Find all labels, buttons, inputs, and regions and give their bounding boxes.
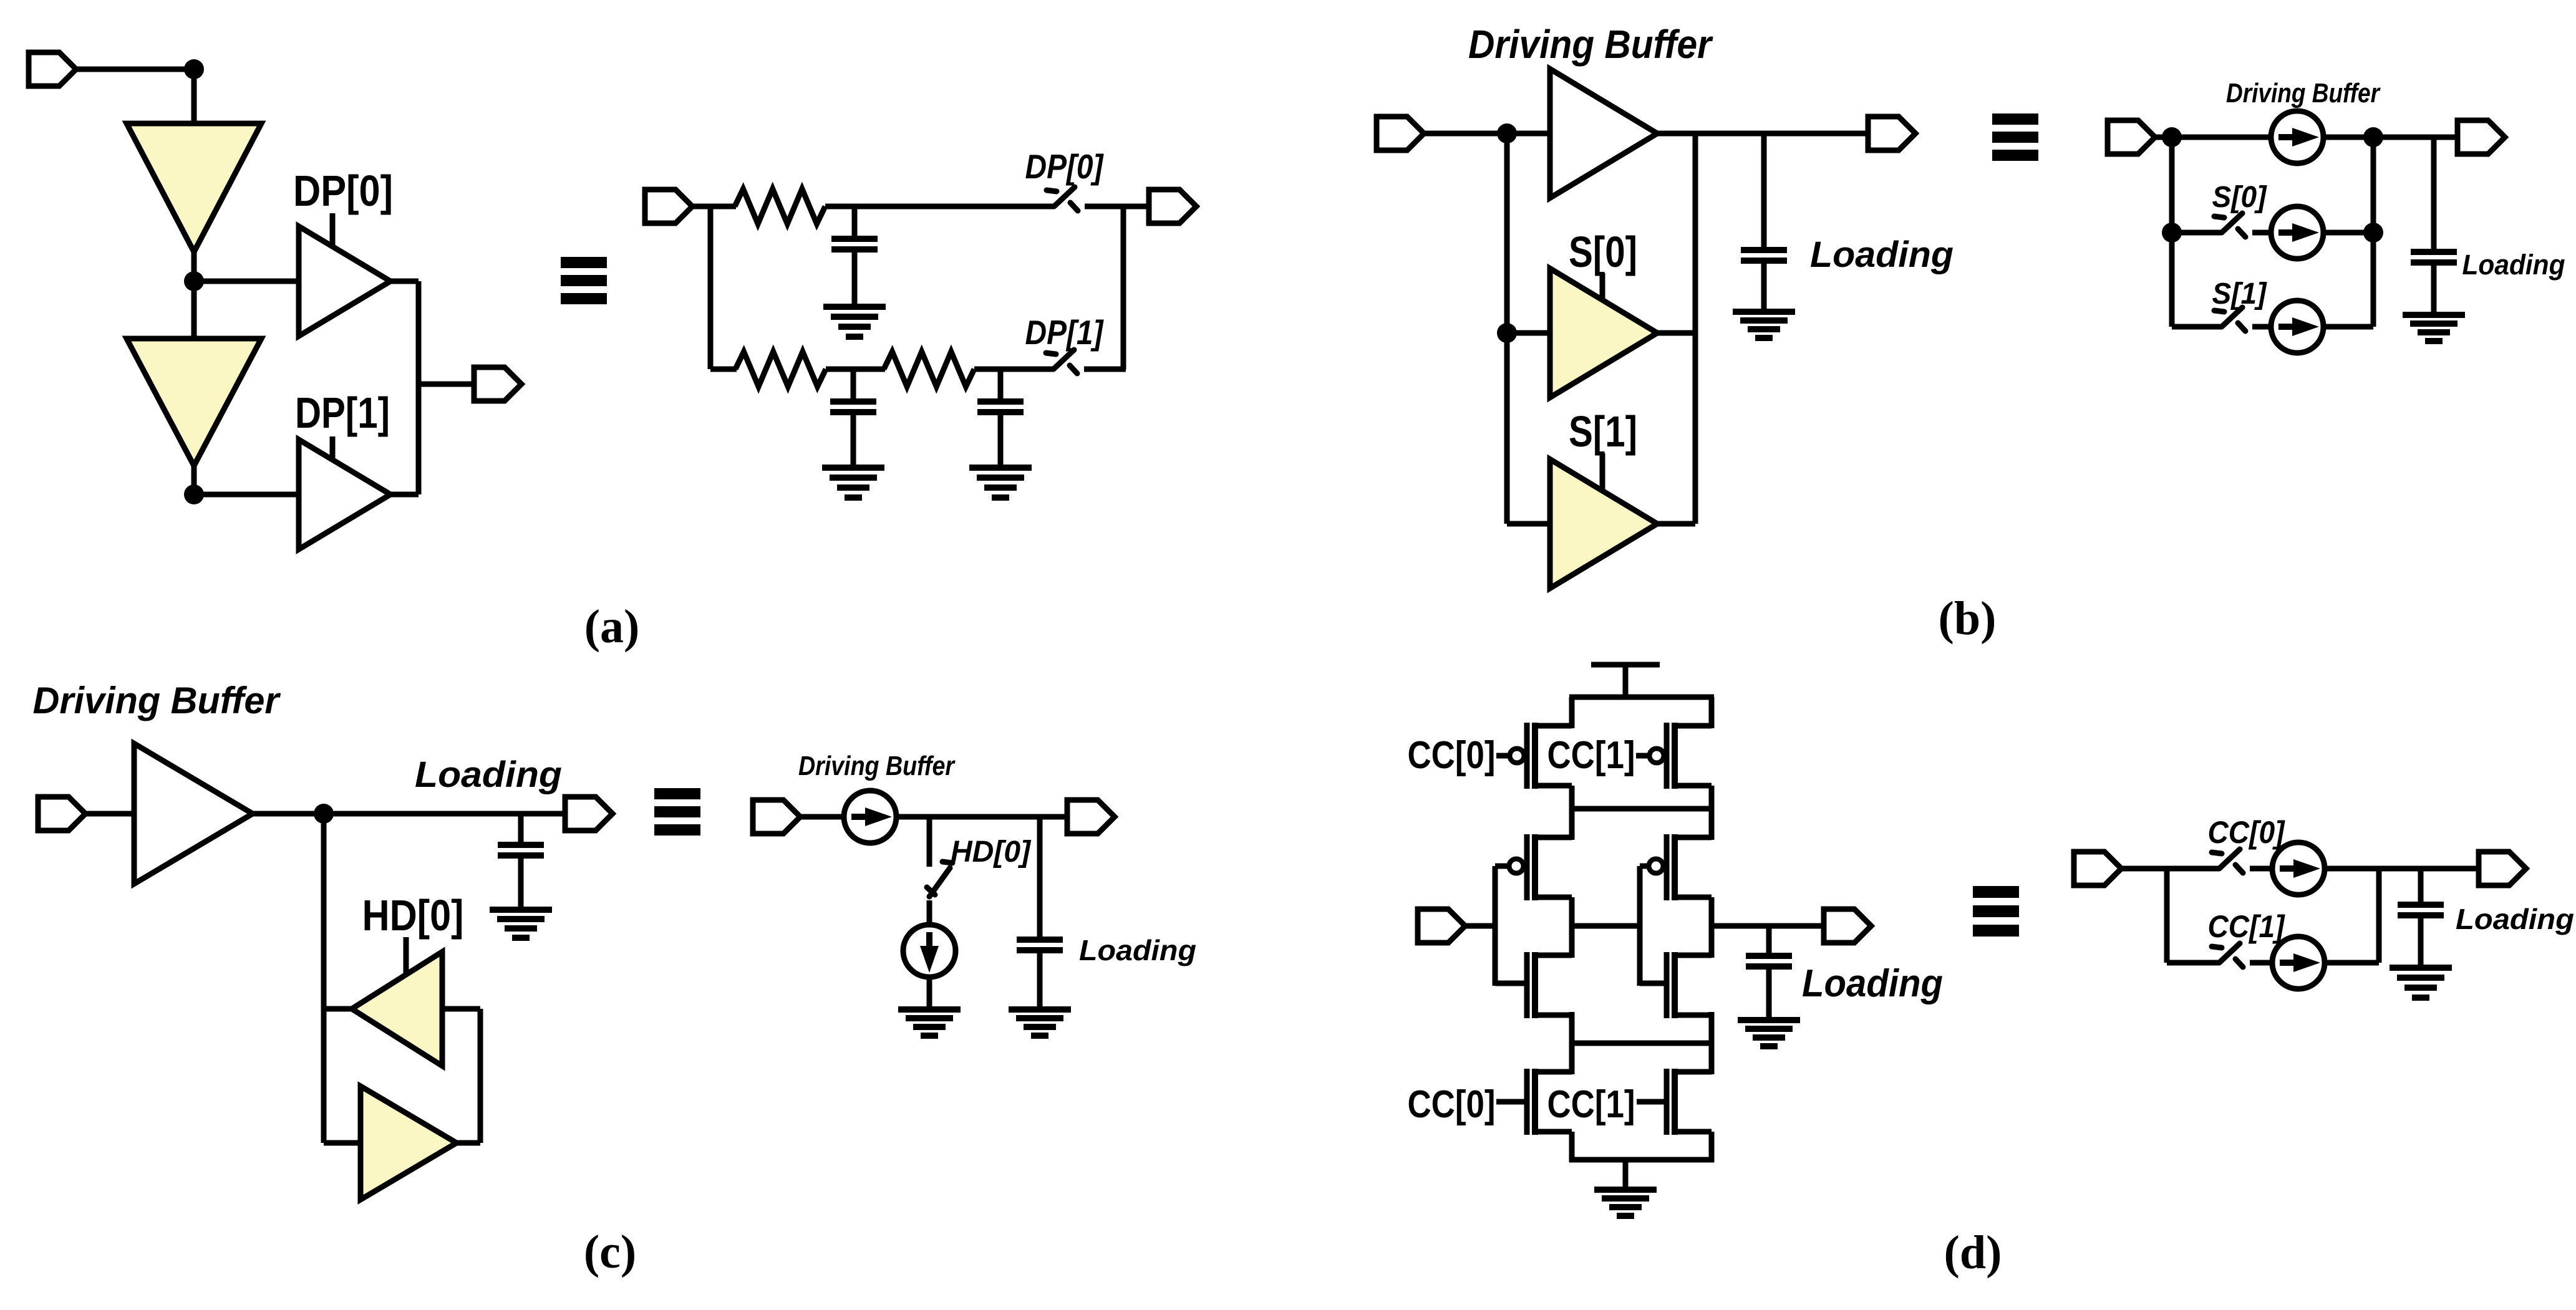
wire bus to switch S0 (b-right) (2172, 230, 2222, 236)
current source driving buffer (c-right) (844, 791, 896, 843)
node2 junction (a) (184, 271, 204, 291)
wire R1 to switch DP0 (node A) (825, 204, 1054, 210)
wire keeper upper out to bus (324, 1006, 352, 1012)
wire IN to current source (b-right) (2155, 135, 2272, 140)
label S[0] (b-left) (1569, 228, 1637, 276)
M3 drain to out1 (d) (1569, 897, 1575, 958)
svg-text:CC[1]: CC[1] (2208, 909, 2286, 944)
node dot S0 branch (b-right) (2162, 223, 2182, 243)
NMOS M8 CC[1] (d) (1637, 1069, 1712, 1135)
loading cap to ground (b-left) (1761, 261, 1767, 312)
left bus vertical (b-right) (2169, 137, 2175, 327)
svg-text:CC[0]: CC[0] (2208, 815, 2286, 850)
output port OUT (a-left) (474, 367, 521, 401)
svg-text:Loading: Loading (2462, 249, 2565, 281)
resistor R1 (a-right top) (735, 189, 825, 224)
equivalence symbol (c) (654, 788, 700, 836)
label Loading (c-right) (1079, 934, 1196, 966)
wire source to OUT (c-right) (898, 814, 1068, 820)
wire node3 to DP1 buffer input (194, 492, 299, 498)
output bus vertical (a-left) (416, 281, 422, 494)
label DP[0] (a-left) (293, 166, 393, 215)
ground of C3 (969, 468, 1032, 498)
node junction top (a) (184, 59, 204, 79)
node P rail (d) (1569, 806, 1714, 812)
wire switch S1 to source (2252, 324, 2272, 330)
svg-text:Driving Buffer: Driving Buffer (1468, 22, 1713, 67)
svg-text:Driving Buffer: Driving Buffer (33, 680, 282, 721)
label Driving Buffer (b-left) (1468, 22, 1713, 67)
input port IN (b-right) (2108, 120, 2155, 154)
svg-text:CC[1]: CC[1] (1547, 1083, 1635, 1126)
ground of loading cap (b-left) (1733, 312, 1795, 338)
svg-text:DP[1]: DP[1] (1025, 313, 1104, 352)
switch HD[0] (c-right) (927, 862, 952, 897)
loading cap to ground (b-right) (2431, 265, 2437, 315)
keeper right vertical (478, 1009, 483, 1143)
wire DP0 out to bus (a) (390, 279, 419, 284)
inverter X1 (delay buffer, a-left) (127, 123, 261, 252)
PMOS M2 CC[1] (d) (1636, 723, 1712, 789)
switch CC[0] (d-right) (2212, 849, 2243, 873)
label DP[0] switch (a-right) (1025, 147, 1104, 186)
label DP[1] switch (a-right) (1025, 313, 1104, 352)
wire IN to switch CC0 (d-right) (2121, 866, 2219, 872)
wire switch S0 to source (2252, 230, 2272, 236)
label HD[0] (c-left) (362, 891, 464, 940)
loading capacitor (b-right) (2411, 137, 2457, 265)
tri-state buffer DP[0] (a-left) (299, 226, 390, 336)
wire switch CC1 to source (2250, 960, 2271, 966)
svg-text:CC[0]: CC[0] (1408, 734, 1496, 777)
ground of C2 (822, 468, 884, 498)
label CC[0] bottom (d) (1408, 1083, 1496, 1126)
gate line inverter-2 (d) (1640, 859, 1667, 986)
equivalence symbol (d) (1973, 886, 2019, 937)
wire R3 to switch DP1 (node C) (974, 367, 1053, 372)
M4 drain to out2 (d) (1709, 897, 1715, 958)
loading cap to ground (c-right) (1037, 950, 1043, 1009)
ground of C1 (823, 307, 886, 337)
wire C3 to ground (998, 415, 1004, 468)
current source CC[0] (d-right) (2272, 842, 2325, 895)
tick DP[1] to buffer (330, 436, 336, 461)
wire IN to driving buffer (c) (85, 811, 134, 817)
current source driving buffer (b-right) (2271, 111, 2323, 163)
out1 to inverter-2 gate (d) (1572, 923, 1640, 929)
switch DP[0] (a-right) (1047, 187, 1078, 211)
ground of loading cap (c-left) (490, 910, 552, 938)
VDD stem (d) (1623, 665, 1629, 700)
output port OUT (c-right) (1067, 800, 1115, 834)
tri-state buffer DP[1] (a-left) (299, 440, 390, 549)
driving buffer (b-left) (1550, 69, 1657, 198)
current source S[1] (b-right) (2271, 301, 2323, 353)
input port IN (d-left) (1418, 909, 1465, 943)
loading capacitor (c-right) (1017, 817, 1063, 953)
wire keeper upper in right (442, 1006, 480, 1012)
right bus vertical (b-right) (2371, 137, 2376, 327)
switch S[0] (b-right) (2214, 213, 2245, 237)
keeper buffer lower (c-left) (361, 1086, 457, 1200)
right bus vertical (b-left) (1693, 133, 1698, 524)
input node dot (b-left) (1497, 123, 1517, 143)
node N rail (d) (1569, 1041, 1714, 1046)
wire switch to sink source (c-right) (927, 900, 932, 923)
current source CC[1] (d-right) (2272, 937, 2325, 989)
wire switch DP1 to right bus (1084, 367, 1126, 372)
M1 drain down to node P (d) (1569, 786, 1575, 811)
output port OUT (d-left) (1824, 909, 1871, 943)
switch CC[1] (d-right) (2212, 943, 2243, 967)
label Driving Buffer (c-right) (798, 751, 956, 781)
resistor R2 (a-right bottom) (735, 352, 826, 387)
junction vertical to lower branch (a-right) (708, 206, 714, 369)
scaling buffer S[1] (b-left) (1550, 460, 1657, 589)
node dot S0 out (b-right) (2363, 223, 2383, 243)
wire S0 out to right bus (1657, 330, 1695, 336)
left bus vertical (b-left) (1504, 133, 1510, 524)
node3 junction (a) (184, 484, 204, 504)
output node dot (c-left) (314, 804, 334, 824)
node P to M4 source (d) (1709, 809, 1715, 840)
switch S[1] (b-right) (2214, 307, 2245, 331)
driving buffer (c-left) (134, 744, 253, 884)
label Loading (d-right) (2456, 903, 2574, 935)
wire left bus corner to S1 input (1507, 521, 1550, 527)
svg-text:(c): (c) (584, 1226, 636, 1278)
wire source CC0 to OUT (d-right) (2326, 866, 2480, 872)
tick S[0] to buffer (1600, 273, 1605, 301)
node N to M7 drain (d) (1569, 1043, 1575, 1074)
svg-text:Loading: Loading (415, 754, 562, 795)
wire buffer out to OUT (b-left) (1657, 131, 1871, 137)
wire corner to switch CC1 (d-right) (2167, 960, 2219, 966)
loading capacitor (d-right) (2398, 869, 2444, 918)
wire switch DP0 to OUT (a-right) (1085, 204, 1149, 210)
svg-text:CC[0]: CC[0] (1408, 1083, 1496, 1126)
wire C2 to ground (851, 415, 856, 468)
panel label (d) (1944, 1226, 2002, 1279)
svg-text:(d): (d) (1944, 1226, 2002, 1279)
ground of loading cap (c-right) (1009, 1009, 1071, 1036)
gate line inverter-1 (d) (1495, 859, 1527, 986)
loading cap to ground (d-right) (2418, 915, 2424, 968)
panel label (a) (584, 600, 640, 653)
wire node down to switch HD0 (927, 817, 932, 867)
label Loading (d-left) (1802, 962, 1943, 1005)
wire buffer out to OUT (c-left) (253, 811, 566, 817)
ground of loading cap (d-left) (1738, 1020, 1800, 1046)
wire sink to ground (c-right) (927, 978, 932, 1009)
inverter X2 (delay buffer, a-left) (127, 339, 261, 466)
label CC[1] bottom (d) (1547, 1083, 1635, 1126)
input port IN (b-left) (1377, 117, 1424, 150)
output port OUT (a-right) (1149, 190, 1196, 223)
input port IN (d-right) (2074, 852, 2121, 885)
svg-text:HD[0]: HD[0] (951, 836, 1032, 869)
output port OUT (d-right) (2479, 852, 2526, 885)
capacitor C2 (a-right) (830, 369, 876, 415)
switch DP[1] (a-right) (1046, 350, 1077, 373)
input port IN (c-right) (753, 800, 800, 834)
label Loading (b-right) (2462, 249, 2565, 281)
wire bus corner to keeper lower in (324, 1140, 361, 1146)
tick S[1] to buffer (1600, 453, 1605, 491)
keeper buffer upper HD[0] (c-left) (352, 952, 442, 1066)
M7 source down to gnd rail (d) (1569, 1132, 1575, 1162)
label HD[0] switch (c-right) (951, 836, 1032, 869)
svg-text:Driving Buffer: Driving Buffer (798, 751, 956, 781)
wire C1 to ground (852, 252, 858, 307)
node dot S0 input (b-left) (1497, 323, 1517, 343)
input node dot (b-right) (2162, 127, 2182, 147)
wire node1 down to inverter X1 (a) (191, 69, 197, 125)
wire source CC1 to right vertical (2326, 960, 2379, 966)
svg-text:Loading: Loading (2456, 903, 2574, 935)
current source S[0] (b-right) (2271, 206, 2323, 259)
equivalence symbol (a) (561, 257, 607, 304)
loading capacitor (d-left) (1746, 926, 1792, 969)
left branch vertical (d-right) (2164, 869, 2170, 963)
wire to S0 buffer (b-left) (1507, 330, 1550, 336)
label CC[1] (d-right) (2208, 909, 2286, 944)
svg-text:(a): (a) (584, 600, 640, 653)
wire source to OUT (b-right) (2322, 135, 2459, 140)
rail to M1 source (d) (1569, 697, 1575, 728)
M6 source down to node N (d) (1709, 1012, 1715, 1046)
wire lower-left corner to R2 (710, 367, 737, 372)
ground of loading cap (d-right) (2390, 968, 2452, 998)
wire IN to node1 (a) (76, 67, 197, 72)
node N to M8 drain (d) (1709, 1043, 1715, 1074)
svg-text:DP[1]: DP[1] (295, 388, 390, 437)
label S[0] (b-right) (2212, 181, 2268, 214)
label Driving Buffer (b-right) (2226, 78, 2381, 108)
right branch vertical (d-right) (2376, 869, 2382, 963)
panel label (b) (1939, 592, 1997, 645)
M5 source down to node N (d) (1569, 1012, 1575, 1046)
output port OUT (c-left) (565, 797, 613, 831)
right bus vertical (a-right) (1121, 206, 1126, 369)
svg-text:Loading: Loading (1802, 962, 1943, 1005)
svg-text:DP[0]: DP[0] (293, 166, 393, 215)
PMOS M3 inverter-1 (d) (1527, 834, 1572, 900)
input port IN (a-right) (645, 190, 692, 223)
wire R2 to R3 (node B) (826, 367, 885, 372)
output node dot (b-right) (2363, 127, 2383, 147)
feedback bus vertical (c-left) (321, 814, 327, 1143)
NMOS M7 CC[0] (d) (1496, 1069, 1572, 1135)
svg-text:S[0]: S[0] (2212, 181, 2268, 214)
equivalence symbol (b) (1992, 113, 2038, 161)
ground of loading cap (b-right) (2403, 315, 2465, 341)
svg-text:Loading: Loading (1079, 934, 1196, 966)
label S[1] (b-left) (1569, 407, 1637, 456)
svg-text:S[0]: S[0] (1569, 228, 1637, 276)
loading cap to ground (c-left) (518, 855, 524, 910)
label S[1] (b-right) (2212, 277, 2268, 311)
wire IN to inverter-1 gate (d) (1465, 923, 1495, 929)
svg-text:CC[1]: CC[1] (1547, 734, 1635, 777)
wire DP1 out to bus (a) (390, 492, 419, 498)
PMOS M4 inverter-2 (d) (1667, 834, 1712, 900)
wire IN to current source (c-right) (800, 814, 843, 820)
PMOS M1 CC[0] (d) (1496, 723, 1572, 789)
wire IN to R1 (a-right) (692, 204, 736, 210)
label Loading (c-left) (415, 754, 562, 795)
ground stem (d) (1623, 1160, 1629, 1190)
resistor R3 (a-right bottom) (884, 352, 974, 387)
ground rail (d) (1569, 1157, 1714, 1163)
wire X1 out to node2 (a) (191, 252, 197, 340)
svg-text:DP[0]: DP[0] (1025, 147, 1104, 186)
svg-text:HD[0]: HD[0] (362, 891, 464, 940)
wire node2 to DP0 buffer input (194, 279, 299, 284)
label CC[1] top (d) (1547, 734, 1635, 777)
wire switch CC0 to source (2250, 866, 2271, 872)
loading cap to ground (d-left) (1766, 966, 1772, 1020)
output port OUT (b-right) (2457, 120, 2505, 154)
label Driving Buffer (c-left) (33, 680, 282, 721)
output port OUT (b-left) (1868, 117, 1915, 150)
wire source S1 to right bus corner (2322, 324, 2373, 330)
wire X2 out to node3 (a) (191, 466, 197, 494)
svg-text:S[1]: S[1] (2212, 277, 2268, 311)
out2 wire to OUT port (d) (1712, 923, 1825, 929)
wire bus corner to switch S1 (b-right) (2172, 324, 2222, 330)
ground of sink (c-right) (898, 1009, 961, 1036)
input port IN (a-left) (29, 52, 76, 86)
wire bus to OUT port (a-left) (419, 382, 475, 387)
tick DP[0] to buffer (330, 213, 336, 248)
loading capacitor (c-left) (498, 814, 544, 858)
ground symbol (d-left) (1594, 1190, 1657, 1216)
svg-text:Driving Buffer: Driving Buffer (2226, 78, 2381, 108)
rail to M2 source (d) (1709, 697, 1715, 728)
label CC[0] top (d) (1408, 734, 1496, 777)
NMOS M6 inverter-2 (d) (1667, 952, 1712, 1018)
svg-text:Loading: Loading (1810, 234, 1954, 275)
M2 drain down to node P (d) (1709, 786, 1715, 811)
capacitor C3 (a-right) (977, 369, 1024, 415)
current sink HD[0] (c-right) (903, 925, 956, 977)
tick HD[0] to keeper buffer (404, 937, 409, 974)
svg-text:S[1]: S[1] (1569, 407, 1637, 456)
VDD rail bar (d) (1591, 662, 1660, 668)
M8 source down to gnd rail (d) (1709, 1132, 1715, 1162)
label Loading (b-left) (1810, 234, 1954, 275)
wire IN to driving buffer (b) (1424, 131, 1550, 137)
PMOS source rail (d) (1569, 695, 1714, 700)
label CC[0] (d-right) (2208, 815, 2286, 850)
loading capacitor (b-left) (1741, 133, 1787, 263)
label DP[1] (a-left) (295, 388, 390, 437)
input port IN (c-left) (38, 797, 85, 831)
wire S1 out to right bus corner (1657, 521, 1695, 527)
capacitor C1 (a-right) (831, 206, 878, 252)
svg-text:(b): (b) (1939, 592, 1997, 645)
wire keeper lower out (457, 1140, 480, 1146)
scaling buffer S[0] (b-left) (1550, 269, 1657, 398)
node P to M3 source (d) (1569, 809, 1575, 840)
NMOS M5 inverter-1 (d) (1527, 952, 1572, 1018)
panel label (c) (584, 1226, 636, 1278)
wire source S0 to right bus (2322, 230, 2373, 236)
